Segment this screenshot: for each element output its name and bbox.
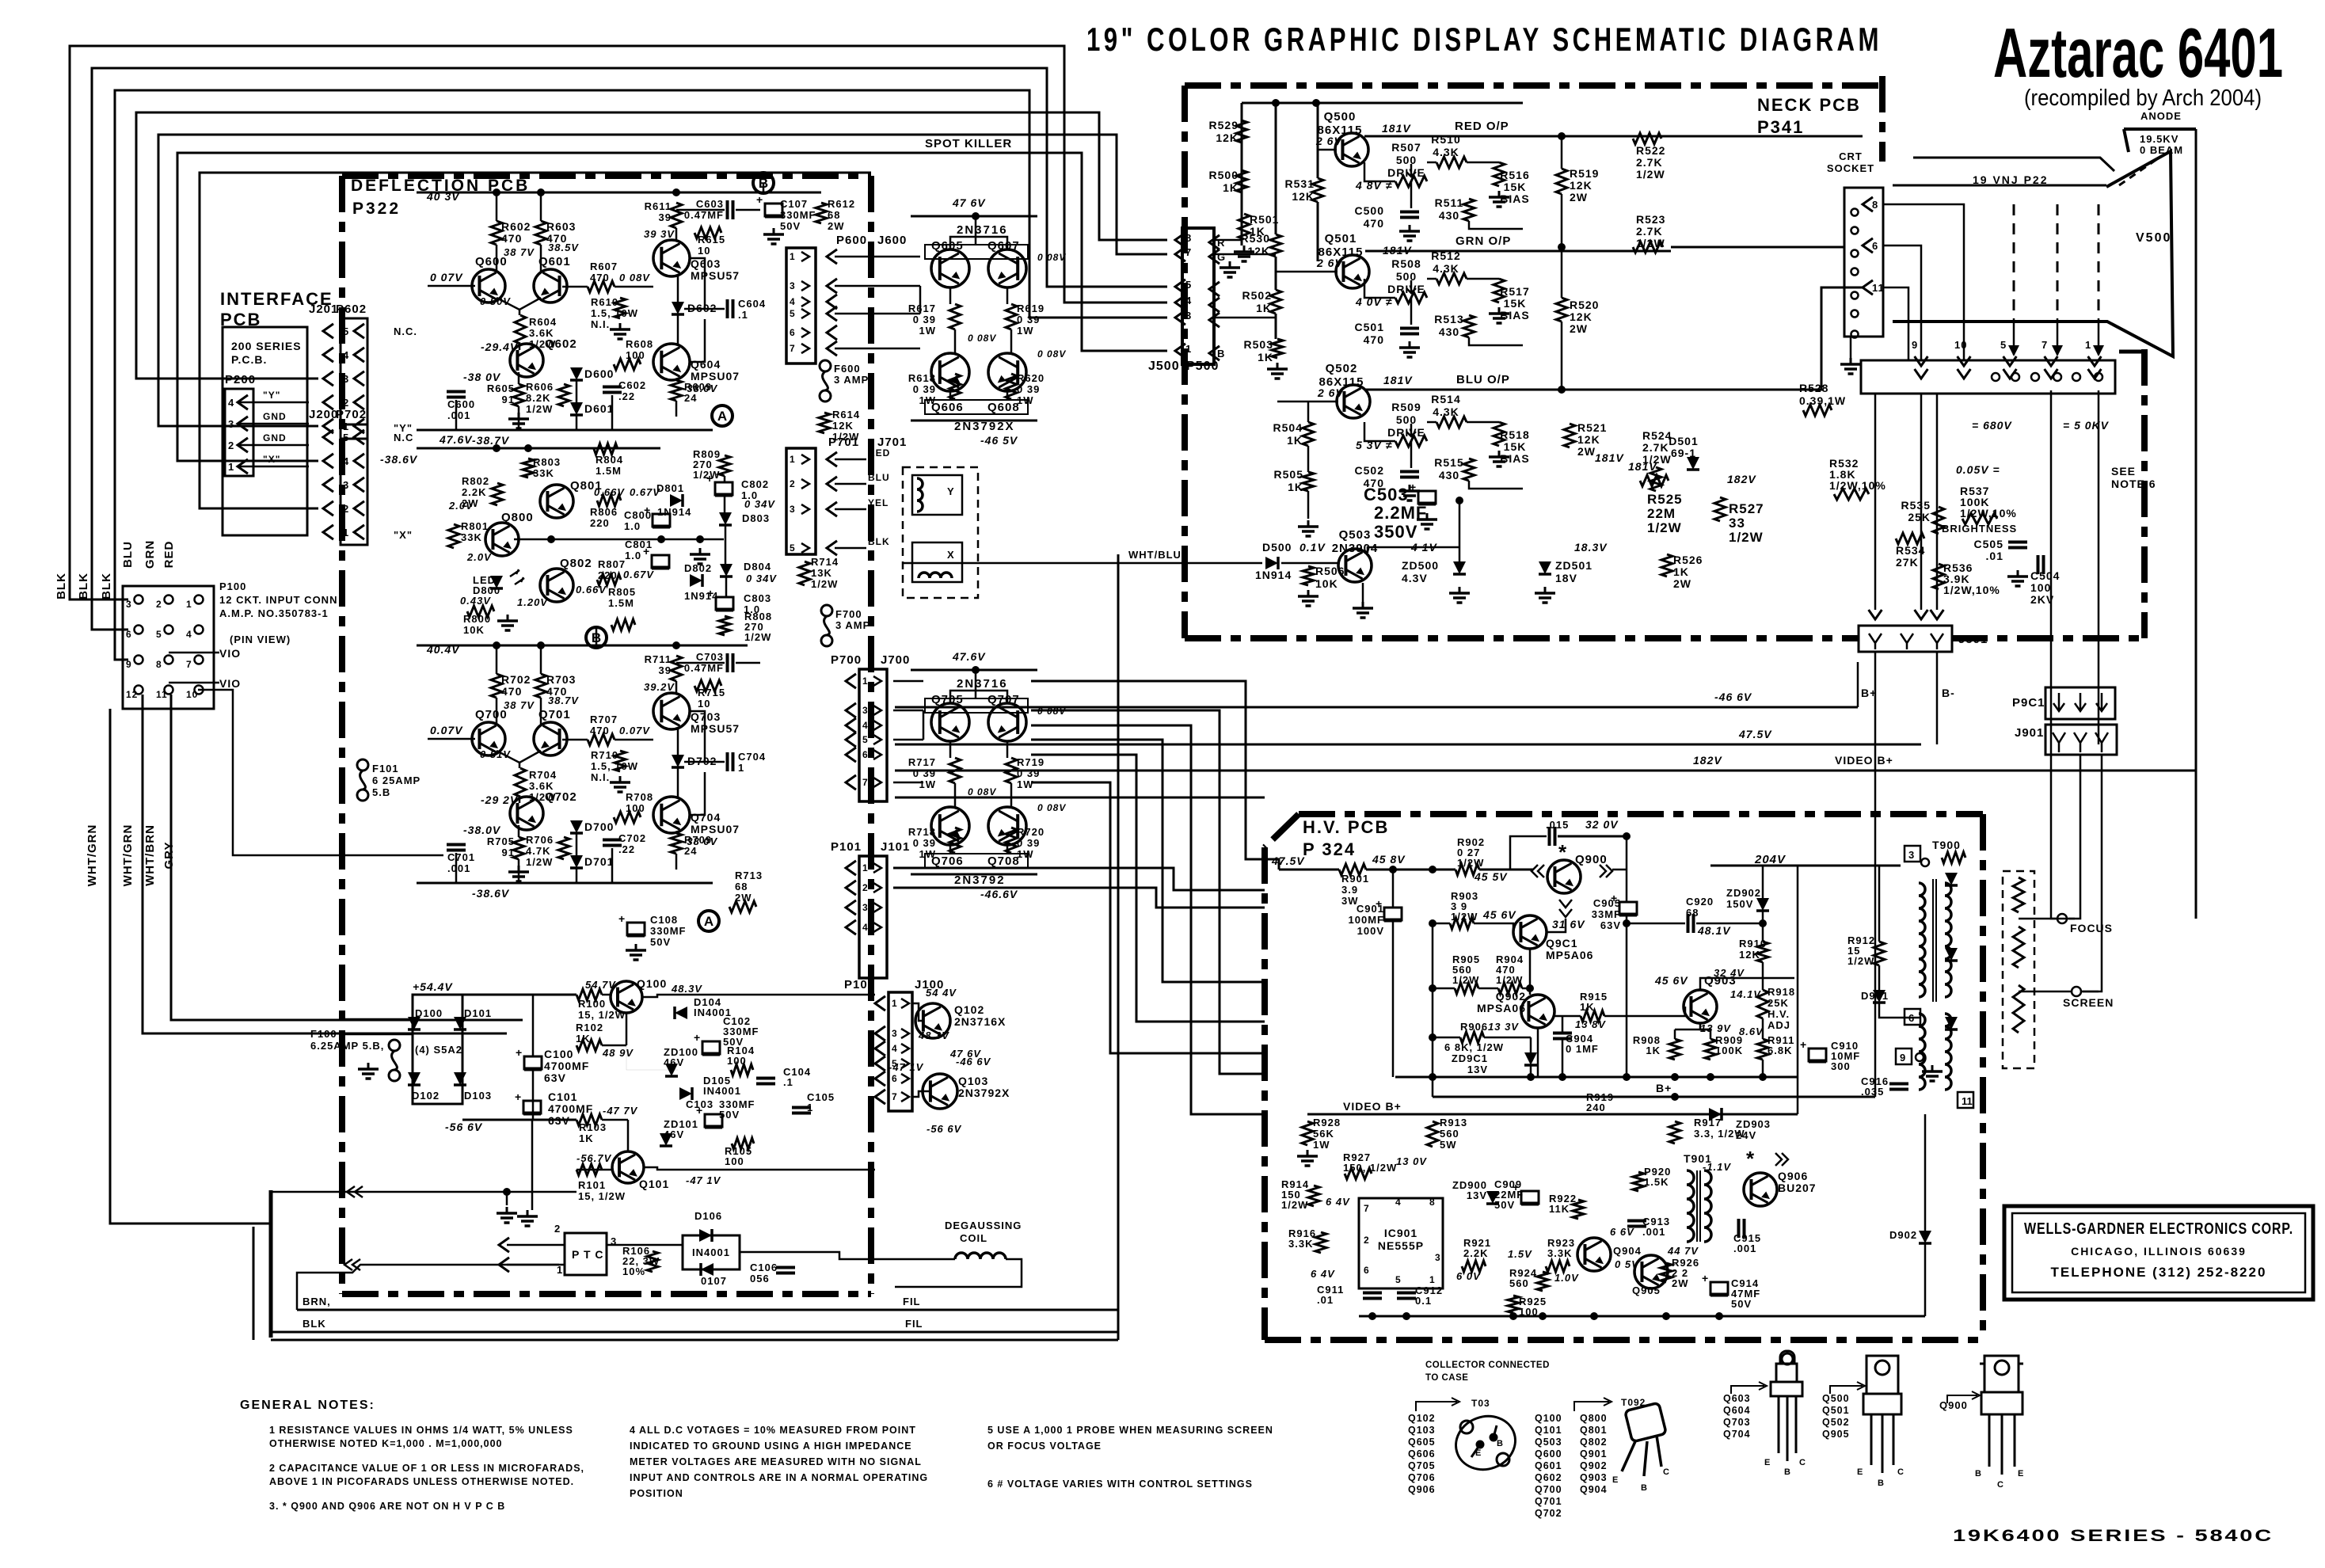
wire Q503 collector	[1368, 547, 1459, 553]
divider resistor b	[2013, 927, 2024, 968]
wire	[736, 662, 760, 664]
resistor R909	[1705, 1039, 1716, 1060]
svg-text:R803: R803	[533, 456, 561, 468]
svg-text:68: 68	[735, 881, 748, 892]
svg-text:-46.6V: -46.6V	[980, 888, 1018, 900]
node A	[712, 405, 733, 426]
svg-text:R714: R714	[811, 556, 839, 568]
T900 primary winding	[1919, 883, 1925, 997]
transistor Q100	[611, 981, 642, 1013]
transistor Q704	[653, 797, 690, 833]
connector P101	[859, 856, 887, 978]
svg-text:1/2W: 1/2W	[1729, 530, 1764, 545]
wire HV column	[1432, 923, 1434, 1097]
svg-text:560: 560	[1440, 1128, 1459, 1140]
svg-text:C500: C500	[1355, 204, 1384, 217]
diode D901	[1873, 990, 1885, 1003]
svg-text:Q904: Q904	[1613, 1245, 1642, 1257]
svg-text:E: E	[1857, 1467, 1863, 1477]
capacitor C911	[1363, 1292, 1382, 1295]
bus wire 2	[92, 68, 1167, 630]
ground below feed	[506, 1207, 508, 1213]
svg-text:24: 24	[684, 392, 697, 404]
svg-text:WHT/GRN: WHT/GRN	[86, 824, 99, 887]
CRT pin 11 arrow	[1863, 280, 1873, 295]
svg-text:-47 1V: -47 1V	[686, 1174, 721, 1186]
svg-text:45 6V: 45 6V	[1482, 908, 1516, 921]
svg-text:8: 8	[1872, 199, 1878, 211]
junction	[524, 444, 532, 452]
pot wiper arrow	[1406, 280, 1416, 293]
svg-text:INDICATED TO GROUND USING: INDICATED TO GROUND USING A HIGH IMPEDAN…	[630, 1441, 912, 1452]
svg-text:TELEPHONE (312) 252-8220: TELEPHONE (312) 252-8220	[2051, 1265, 2267, 1280]
svg-text:R720: R720	[1017, 826, 1045, 838]
svg-text:100V: 100V	[1357, 925, 1384, 937]
wire	[1006, 845, 1009, 854]
wire	[238, 444, 309, 447]
wire C920 to ZD902	[1696, 923, 1763, 925]
svg-text:3.3K: 3.3K	[1288, 1238, 1313, 1250]
svg-text:D801: D801	[656, 482, 684, 494]
grid lead 2	[1883, 245, 1921, 285]
transistor Q602	[510, 344, 543, 377]
svg-text:38 7V: 38 7V	[504, 246, 535, 258]
svg-text:E: E	[1475, 1448, 1482, 1458]
svg-text:RED O/P: RED O/P	[1455, 120, 1509, 133]
wire	[1006, 287, 1009, 304]
degauss return	[895, 1259, 1022, 1287]
svg-text:P101: P101	[831, 840, 862, 854]
resistor R610	[615, 298, 626, 318]
junction	[1759, 1073, 1767, 1081]
wire PTC return	[297, 1265, 559, 1310]
svg-text:47.6V: 47.6V	[439, 433, 473, 446]
svg-text:3 AMP: 3 AMP	[834, 374, 869, 386]
svg-text:0 39: 0 39	[1017, 314, 1040, 325]
svg-text:C801: C801	[625, 539, 653, 550]
svg-text:7: 7	[2042, 339, 2048, 351]
wire ZD901 top	[1530, 1037, 1532, 1052]
svg-text:NE555P: NE555P	[1378, 1239, 1424, 1252]
svg-text:1: 1	[790, 251, 796, 262]
svg-text:33K: 33K	[461, 531, 482, 543]
svg-text:1.5, 10W: 1.5, 10W	[591, 760, 638, 772]
svg-text:6 25AMP: 6 25AMP	[372, 774, 420, 786]
svg-text:220: 220	[590, 517, 610, 529]
chevrons Q906	[1775, 1153, 1788, 1166]
svg-text:1.5V: 1.5V	[1508, 1248, 1532, 1260]
resistor R524	[1640, 475, 1669, 486]
wire	[1626, 836, 1628, 870]
wire emitter to drive	[1364, 422, 1395, 441]
capacitor C916	[1889, 1083, 1908, 1086]
svg-text:6 8K, 1/2W: 6 8K, 1/2W	[1444, 1041, 1504, 1053]
wire	[238, 423, 309, 425]
resistor R104	[731, 1064, 753, 1075]
svg-text:+: +	[516, 1046, 522, 1059]
diode D103	[454, 1072, 466, 1085]
svg-text:Q502: Q502	[1326, 362, 1358, 375]
svg-text:R504: R504	[1273, 421, 1303, 434]
svg-text:4.3K: 4.3K	[1433, 405, 1459, 418]
wire ZD901 bottom	[1530, 1065, 1532, 1077]
svg-text:4: 4	[862, 720, 869, 731]
svg-text:R521: R521	[1577, 421, 1607, 434]
svg-text:1K: 1K	[1287, 434, 1303, 447]
svg-text:+: +	[706, 472, 713, 485]
svg-text:100K: 100K	[1715, 1045, 1743, 1056]
zener ZD903	[1709, 1108, 1722, 1121]
wire	[562, 739, 588, 741]
svg-text:R614: R614	[832, 409, 860, 421]
junction	[1590, 1312, 1598, 1320]
svg-text:C703: C703	[696, 651, 724, 663]
CRT base contact	[2031, 373, 2039, 381]
CRT socket pin	[1851, 209, 1859, 216]
bridge rectifier box	[413, 995, 462, 1104]
deflection PCB border right	[868, 176, 874, 1294]
electrolytic capacitor C107	[765, 204, 782, 216]
svg-text:-38.0V: -38.0V	[463, 824, 501, 836]
svg-text:D101: D101	[464, 1007, 492, 1019]
wire screen from J901	[2083, 755, 2102, 991]
svg-text:+: +	[694, 1031, 700, 1044]
svg-text:WELLS-GARDNER ELECTRONICS CORP: WELLS-GARDNER ELECTRONICS CORP.	[2024, 1220, 2293, 1238]
svg-text:R717: R717	[908, 756, 936, 768]
svg-text:+: +	[756, 193, 763, 206]
bus wire 7	[200, 173, 871, 508]
wire	[671, 276, 672, 294]
svg-text:10: 10	[698, 245, 710, 257]
svg-text:C701: C701	[447, 851, 475, 863]
CRT base contact	[2053, 373, 2061, 381]
svg-text:13 9V: 13 9V	[1700, 1022, 1731, 1034]
P600 pin arrow	[801, 309, 809, 318]
wire 48.3V to J100	[642, 995, 875, 997]
svg-text:BLU: BLU	[868, 472, 890, 483]
svg-text:0 1MF: 0 1MF	[1566, 1043, 1599, 1055]
electrode arrow	[2093, 345, 2104, 356]
wire	[1920, 285, 1923, 360]
svg-text:6: 6	[1872, 240, 1878, 252]
svg-text:0.1: 0.1	[1415, 1295, 1432, 1307]
svg-text:R103: R103	[579, 1121, 607, 1133]
Y yoke coil	[917, 478, 923, 512]
deflection PCB border bottom	[342, 1291, 871, 1297]
wire	[540, 192, 542, 221]
svg-text:ADJ: ADJ	[1768, 1019, 1790, 1031]
svg-text:R707: R707	[590, 714, 618, 725]
wire 182V / video B+	[895, 770, 2196, 772]
svg-text:32 0V: 32 0V	[1585, 818, 1619, 831]
svg-text:50V: 50V	[719, 1109, 740, 1121]
resistor R720	[1006, 828, 1017, 853]
svg-text:+: +	[707, 587, 713, 599]
svg-text:5W: 5W	[1440, 1139, 1457, 1151]
HV mid rail	[1395, 1076, 1798, 1079]
resistor R908	[1669, 1039, 1680, 1060]
wire	[344, 1018, 413, 1021]
Q900 arrow	[1947, 1391, 1980, 1403]
arrow degauss feed 2	[499, 1258, 509, 1272]
P100 pin 6	[135, 626, 143, 634]
terminal circle 9	[1916, 1053, 1924, 1061]
svg-text:RED: RED	[868, 447, 890, 459]
svg-text:150, 1/2W: 150, 1/2W	[1343, 1162, 1397, 1174]
P500 pin arrow 6	[1175, 344, 1185, 358]
ground below R710	[619, 776, 622, 782]
wire	[626, 1013, 628, 1045]
svg-text:VIO: VIO	[219, 647, 241, 660]
wire quad join 2	[923, 710, 925, 740]
svg-text:15, 1/2W: 15, 1/2W	[578, 1009, 626, 1021]
svg-text:Q700: Q700	[475, 708, 508, 721]
svg-text:WHT/BLU: WHT/BLU	[1128, 549, 1182, 561]
svg-text:8.2K: 8.2K	[526, 392, 550, 404]
ground below C502	[1409, 485, 1411, 491]
svg-text:1K: 1K	[1223, 181, 1239, 194]
wire focus	[2051, 390, 2075, 919]
transistor Q902	[1521, 995, 1554, 1028]
svg-text:R604: R604	[529, 316, 557, 328]
svg-text:1.20V: 1.20V	[517, 596, 548, 608]
svg-text:0.67V: 0.67V	[623, 569, 654, 580]
svg-text:45 6V: 45 6V	[1654, 974, 1688, 987]
svg-text:6: 6	[892, 1073, 898, 1084]
wire R908 top	[1674, 1029, 1676, 1039]
svg-text:2W: 2W	[735, 892, 752, 904]
svg-text:1K: 1K	[1256, 302, 1272, 314]
wire BLK	[271, 1331, 1118, 1334]
svg-text:R525: R525	[1647, 492, 1683, 507]
svg-text:R800: R800	[463, 613, 491, 625]
wire	[540, 245, 542, 272]
wire	[1612, 869, 1627, 871]
svg-text:CHICAGO, ILLINOIS 60639: CHICAGO, ILLINOIS 60639	[2071, 1245, 2247, 1258]
wire below R505	[1307, 491, 1310, 519]
quad top wires	[950, 691, 1007, 703]
svg-text:25K: 25K	[1908, 511, 1931, 523]
svg-text:Q902: Q902	[1496, 990, 1526, 1003]
resistor R536	[1933, 564, 1944, 589]
svg-text:46V: 46V	[664, 1128, 684, 1140]
svg-text:Q102: Q102	[1408, 1413, 1436, 1424]
svg-text:500: 500	[1396, 154, 1417, 166]
svg-text:P.C.B.: P.C.B.	[231, 353, 267, 366]
P200 pin 2 arrow	[238, 438, 248, 452]
svg-text:330MF: 330MF	[650, 925, 686, 937]
wire	[611, 395, 614, 430]
electrolytic capacitor C503	[1418, 491, 1436, 504]
cascade wire 4	[1031, 740, 1265, 982]
svg-text:D601: D601	[584, 402, 614, 415]
wire	[1317, 202, 1319, 261]
svg-text:2 6V: 2 6V	[1317, 386, 1344, 399]
svg-text:Q502: Q502	[1822, 1417, 1850, 1428]
svg-text:0.05V =: 0.05V =	[1956, 463, 2000, 476]
svg-text:R513: R513	[1434, 313, 1463, 325]
svg-text:15K: 15K	[1504, 440, 1527, 453]
svg-text:-56 6V: -56 6V	[445, 1121, 483, 1133]
svg-text:T900: T900	[1932, 839, 1961, 851]
svg-text:P341: P341	[1757, 117, 1804, 137]
wire into PTC 2	[507, 1244, 565, 1246]
P702 pin 4 arrow	[354, 454, 364, 468]
svg-text:Q606: Q606	[1408, 1448, 1436, 1460]
transistor Q606	[931, 353, 969, 391]
J901 pin	[2074, 733, 2087, 752]
wire	[1469, 221, 1523, 229]
junction	[1671, 1093, 1679, 1101]
capacitor C915	[1737, 1219, 1741, 1238]
resistor R523	[1633, 242, 1663, 253]
svg-text:560: 560	[1509, 1277, 1529, 1289]
svg-text:470: 470	[590, 272, 610, 284]
svg-text:D700: D700	[584, 820, 614, 833]
capacitor C104	[756, 1077, 775, 1080]
svg-text:1: 1	[1429, 1274, 1436, 1285]
svg-text:Q905: Q905	[1632, 1284, 1661, 1296]
neck PCB border right	[2141, 349, 2148, 638]
svg-text:Q903: Q903	[1580, 1472, 1608, 1483]
emitter join	[497, 751, 541, 763]
svg-text:19" COLOR GRAPHIC DISPLAY: 19" COLOR GRAPHIC DISPLAY SCHEMATIC DIAG…	[1086, 21, 1882, 58]
wire	[1561, 194, 1563, 298]
fuse F700	[821, 605, 832, 616]
wire	[975, 216, 977, 245]
ground below R705	[518, 866, 520, 872]
svg-text:R502: R502	[1242, 289, 1272, 302]
wire	[690, 258, 705, 309]
svg-text:33MF: 33MF	[1592, 908, 1621, 920]
CRT funnel V500	[1893, 151, 2173, 356]
wire	[949, 287, 952, 304]
transistor Q702	[510, 797, 543, 830]
svg-text:-38 0V: -38 0V	[463, 371, 501, 383]
svg-text:27K: 27K	[1896, 556, 1919, 569]
wire BLU to CRT pin 11	[1671, 287, 1863, 390]
resistor R514	[1436, 417, 1467, 428]
svg-text:056: 056	[750, 1273, 770, 1284]
electrolytic capacitor C100	[524, 1056, 542, 1069]
svg-text:R702: R702	[501, 673, 531, 686]
svg-text:R512: R512	[1431, 249, 1460, 262]
resistor ('R706', '4.7K')	[558, 837, 569, 859]
svg-text:R619: R619	[1017, 303, 1045, 314]
capacitor C500	[1400, 211, 1419, 214]
svg-text:2: 2	[228, 440, 234, 451]
wire	[518, 825, 520, 837]
wire	[576, 1169, 612, 1171]
svg-text:0 08V: 0 08V	[968, 786, 996, 797]
wire to D902	[1924, 1114, 1927, 1232]
electrolytic capacitor C101	[523, 1101, 541, 1113]
P602 pin 2 arrow	[354, 395, 364, 409]
wire	[596, 627, 598, 645]
diode D102	[408, 1072, 420, 1085]
svg-text:2.7K: 2.7K	[1636, 225, 1663, 238]
J201 pin 3 arrow	[323, 371, 333, 386]
diode pair box	[683, 1235, 740, 1269]
wire	[677, 729, 679, 755]
wire -56.7V feed	[271, 1191, 576, 1193]
svg-text:4 ALL D.C VOTAGES = 10% M: 4 ALL D.C VOTAGES = 10% MEASURED FROM PO…	[630, 1425, 916, 1436]
junction	[1526, 984, 1534, 992]
wire	[518, 372, 520, 384]
wire	[1467, 421, 1499, 424]
junction	[1429, 919, 1436, 927]
capacitor C703	[726, 653, 729, 672]
junction	[1429, 984, 1436, 992]
ground below R610	[619, 323, 622, 329]
wire	[1006, 741, 1009, 758]
wire 204V right down	[1797, 866, 1799, 1114]
resistor R703	[535, 674, 546, 698]
svg-text:330MF: 330MF	[780, 209, 816, 221]
resistor R521	[1564, 424, 1575, 447]
wire RED to CRT pin 8	[1671, 135, 1863, 138]
resistor R719	[1006, 758, 1017, 783]
focus tap	[2057, 914, 2067, 923]
svg-text:B: B	[1641, 1483, 1648, 1493]
svg-text:B: B	[1217, 348, 1225, 360]
CRT base pin arrow 2	[2088, 369, 2102, 379]
svg-text:6 6V: 6 6V	[1610, 1226, 1634, 1238]
wire	[531, 1120, 534, 1210]
resistor R619	[1006, 304, 1017, 329]
P100 pin 1	[195, 596, 204, 604]
svg-text:10K: 10K	[463, 624, 485, 636]
CRT pin 6 arrow	[1863, 238, 1873, 253]
wire	[1467, 278, 1499, 280]
wire C905 top	[1626, 870, 1628, 903]
svg-text:0.39,1W: 0.39,1W	[1799, 394, 1846, 407]
svg-text:R917: R917	[1694, 1117, 1722, 1128]
connector J501	[1859, 626, 1952, 652]
svg-text:1/2W: 1/2W	[1281, 1199, 1308, 1211]
svg-text:R510: R510	[1431, 133, 1460, 146]
junction	[1429, 1073, 1436, 1081]
wire C905 bottom	[1626, 915, 1628, 1077]
svg-text:C: C	[1897, 1467, 1905, 1477]
P101 pin arrow	[873, 863, 881, 873]
capacitor C504	[2037, 555, 2040, 574]
wire to R905	[1433, 988, 1455, 990]
CRT base contact	[2095, 373, 2102, 381]
bus wire 4	[136, 112, 1167, 379]
zener ZD101	[660, 1133, 672, 1146]
wire D500 to Q503	[1281, 562, 1338, 565]
svg-text:GND: GND	[263, 432, 287, 443]
svg-text:J501: J501	[1958, 633, 1988, 646]
svg-text:54 4V: 54 4V	[926, 987, 957, 999]
transistor Q608	[988, 353, 1026, 391]
quad box 2	[925, 854, 1028, 868]
wire	[519, 310, 521, 315]
svg-text:2: 2	[1364, 1235, 1370, 1246]
ground below Q503	[1362, 602, 1364, 608]
capacitor C702	[603, 839, 622, 842]
wire	[975, 670, 977, 698]
svg-text:0107: 0107	[701, 1275, 727, 1287]
resistor R520	[1556, 298, 1567, 322]
svg-text:1: 1	[862, 862, 869, 873]
svg-text:INPUT AND CONTROLS ARE IN: INPUT AND CONTROLS ARE IN A NORMAL OPERA…	[630, 1472, 928, 1483]
J201 pin 4 arrow	[323, 348, 333, 362]
P500 pin 4 arrow	[1209, 298, 1220, 312]
svg-text:18.3V: 18.3V	[1574, 541, 1608, 554]
svg-text:100: 100	[725, 1155, 744, 1167]
